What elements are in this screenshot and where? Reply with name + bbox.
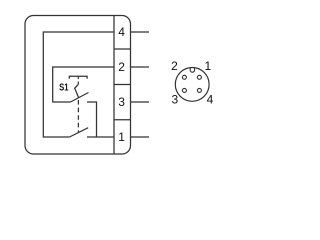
connector block left edge [113, 16, 115, 155]
linkage zigzag to upper lever [75, 84, 79, 98]
switch S1 upper lever [71, 93, 89, 103]
connector pin bottom-right [197, 88, 201, 92]
svg-text:3: 3 [118, 95, 125, 109]
sensor housing outline [25, 16, 131, 155]
connector pin bottom-left [182, 88, 186, 92]
connector pin top-right [197, 75, 201, 79]
svg-text:4: 4 [207, 93, 214, 107]
linkage dashed line to lower lever [77, 100, 79, 132]
pin 4 external stub [131, 31, 150, 33]
pin cell divider 2/3 [114, 84, 131, 86]
wire lower contact to pin1 [87, 136, 114, 138]
actuator bracket center tick [77, 76, 79, 79]
connector face circle [175, 68, 209, 102]
actuator bracket [69, 76, 87, 79]
switch S1 lower lever [70, 128, 89, 137]
wire pin2 to upper contact [53, 67, 114, 102]
svg-text:4: 4 [118, 25, 125, 39]
wire loop pin4 to lower contact [43, 32, 114, 137]
pin cell divider 4/2 [114, 48, 131, 50]
upper contact right wire [87, 102, 97, 137]
keyway notch [190, 67, 194, 72]
svg-text:2: 2 [171, 59, 178, 73]
svg-text:S1: S1 [59, 83, 69, 94]
svg-text:1: 1 [118, 130, 125, 144]
linkage dash upper [77, 82, 79, 85]
svg-text:1: 1 [204, 59, 211, 73]
pin 1 external stub [131, 136, 150, 138]
pin cell divider 3/1 [114, 119, 131, 121]
pin 3 external stub [131, 101, 150, 103]
pin 2 external stub [131, 66, 150, 68]
svg-text:3: 3 [171, 93, 178, 107]
svg-text:2: 2 [118, 60, 125, 74]
connector pin top-left [182, 75, 186, 79]
